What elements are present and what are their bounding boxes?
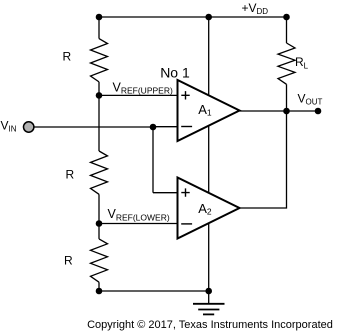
junction RL top [283, 14, 290, 21]
op-amp A1 [178, 80, 240, 141]
wire VOUT [287, 110, 319, 112]
wire bottom ground rail [99, 290, 209, 292]
resistor R3 [91, 239, 108, 282]
junction bottom-left [96, 288, 103, 295]
ground [193, 291, 225, 314]
svg-text:Copyright © 2017, Texas Instru: Copyright © 2017, Texas Instruments Inco… [87, 319, 333, 331]
junction top-left [96, 14, 103, 21]
wire A2 output [240, 111, 287, 208]
ground bar 2 [198, 309, 219, 311]
wire VIN to node A [35, 126, 154, 128]
wire node A down [152, 127, 154, 193]
op-amp A2 body [178, 178, 240, 239]
ground bar 1 [193, 303, 225, 305]
terminal VIN [24, 122, 34, 132]
svg-text:R: R [66, 168, 75, 182]
terminal VOUT [315, 108, 322, 115]
wire VREF(UPPER) to A1 noninverting input [99, 94, 178, 96]
wire R2 to node VREF(LOWER) [98, 194, 100, 223]
wire R3 to ground rail [98, 282, 100, 291]
op-amp A1 body [178, 80, 240, 141]
wire RL bottom lead [286, 84, 288, 111]
wire left rail upper [98, 17, 100, 39]
A1 inverting input marker - [181, 126, 192, 128]
ground stem wire [208, 291, 210, 304]
node VREF(LOWER) junction [96, 220, 103, 227]
junction top-middle [205, 14, 212, 21]
A2 noninverting input marker + [181, 188, 189, 196]
svg-text:No 1: No 1 [160, 65, 190, 81]
wire node A to A1 inverting input [153, 126, 178, 128]
op-amp A2 [178, 178, 240, 239]
svg-text:VREF(UPPER): VREF(UPPER) [113, 80, 173, 95]
svg-text:RL: RL [295, 55, 309, 70]
wire A1 output [240, 110, 287, 112]
resistor RL [278, 43, 295, 84]
wire R1 to node VREF(UPPER) [98, 82, 100, 96]
A2 inverting input marker - [181, 223, 192, 225]
svg-text:R: R [63, 50, 72, 64]
wire top rail [99, 16, 287, 18]
wire VREF(LOWER) to R3 [98, 224, 100, 239]
node VREF(UPPER) junction [96, 92, 103, 99]
node A junction [150, 124, 157, 131]
wire RL top lead [286, 17, 288, 43]
wire node A to A2 noninverting input [153, 192, 178, 194]
wire VREF(LOWER) to A2 inverting input [99, 223, 178, 225]
svg-text:VREF(LOWER): VREF(LOWER) [108, 207, 170, 222]
svg-text:VIN: VIN [1, 118, 17, 133]
wire power line vertical [208, 17, 210, 291]
junction ground [205, 288, 212, 295]
resistor R1 [91, 39, 108, 82]
wire VREF(UPPER) to R2 [98, 95, 100, 151]
ground bar 3 [203, 313, 214, 315]
svg-text:+VDD: +VDD [242, 1, 269, 16]
node VOUT junction [283, 108, 290, 115]
A1 noninverting input marker + [181, 91, 189, 99]
svg-text:VOUT: VOUT [298, 92, 323, 107]
svg-text:R: R [64, 254, 73, 268]
resistor R2 [91, 151, 108, 194]
